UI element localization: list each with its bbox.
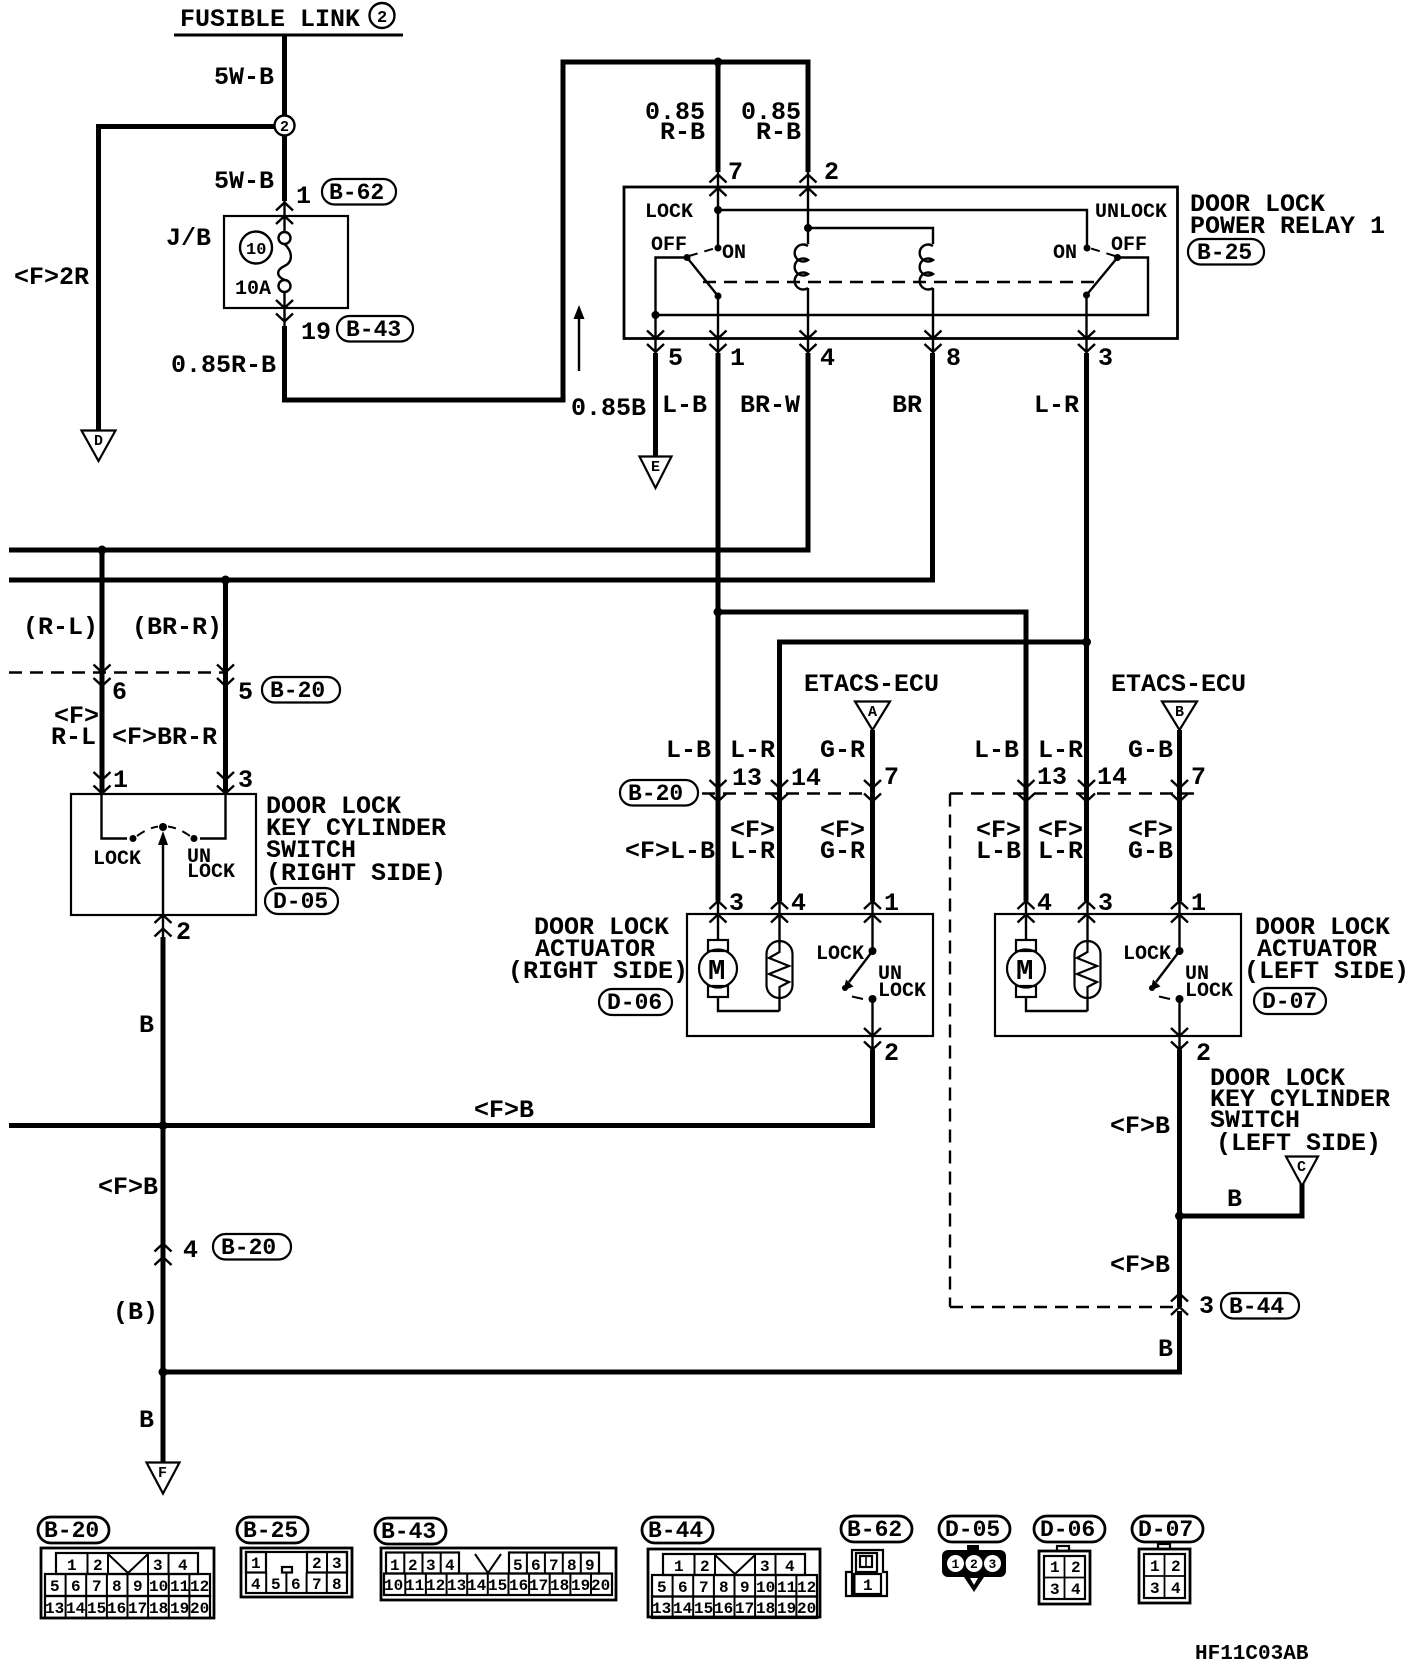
pin 3 chevron (1078, 331, 1095, 353)
connector B-25 drawing (241, 1548, 352, 1597)
title FUSIBLE LINK 2 (174, 3, 403, 35)
actuator LH name text (1244, 913, 1408, 986)
fuse element (two terminals + s-curve) (278, 200, 291, 328)
wire L-B from relay pin1 down (716, 353, 721, 901)
svg-text:L-B: L-B (662, 391, 707, 420)
svg-text:B: B (1158, 1335, 1173, 1364)
svg-text:3: 3 (153, 1557, 163, 1575)
svg-text:<F>BR-R: <F>BR-R (112, 723, 217, 752)
signal source triangle C (1286, 1157, 1318, 1187)
svg-text:G-R: G-R (820, 736, 865, 765)
svg-text:2: 2 (377, 9, 387, 28)
svg-text:A: A (868, 704, 877, 721)
svg-text:16: 16 (509, 1577, 528, 1595)
svg-text:2: 2 (93, 1557, 103, 1575)
svg-text:1: 1 (113, 766, 128, 795)
svg-text:D: D (94, 433, 103, 450)
left switch pivot dot (684, 254, 691, 261)
svg-text:J/B: J/B (166, 224, 211, 253)
svg-text:4: 4 (445, 1557, 455, 1575)
label (F) R-L (51, 702, 99, 752)
wire pin5 to ground E (653, 353, 658, 456)
wire relay pin8 BR down (930, 353, 935, 580)
connector D-07 drawing (1139, 1544, 1190, 1603)
junction dot L-B branch (714, 608, 723, 617)
svg-text:3: 3 (989, 1557, 997, 1572)
svg-text:1: 1 (674, 1558, 684, 1576)
wire L-R from relay pin3 down (1084, 353, 1089, 901)
svg-text:7: 7 (1191, 763, 1206, 792)
left arm lead to pin 1 (717, 296, 719, 355)
wire L-B branch to left actuator (718, 612, 1026, 901)
svg-text:(LEFT SIDE): (LEFT SIDE) (1244, 957, 1408, 986)
ground D (82, 431, 116, 462)
svg-text:1: 1 (1050, 1559, 1060, 1577)
pin 7 chevron (710, 175, 727, 197)
wire 0.85R-B from J/B to relay feed (285, 62, 809, 400)
pin 13 chevron LH (1018, 780, 1035, 802)
pin 14 chevron (771, 780, 788, 802)
svg-text:10: 10 (384, 1577, 403, 1595)
connector tag B-43 (row) (375, 1518, 446, 1545)
svg-text:B: B (1175, 704, 1184, 721)
right switch dashed throw link (1091, 249, 1115, 257)
signal source triangle B (1162, 702, 1197, 731)
fuse 10 circled number (240, 232, 272, 264)
left switch common wire (656, 258, 688, 316)
connector B-20 dashed boundary (door RH) (702, 792, 875, 794)
connector tag B-20 (262, 677, 340, 704)
svg-text:B: B (139, 1011, 154, 1040)
svg-text:G-R: G-R (820, 837, 865, 866)
key switch lock lead (102, 794, 128, 839)
svg-text:2: 2 (408, 1557, 418, 1575)
wire relay pin4 BR-W down (806, 353, 811, 550)
svg-text:<F>B: <F>B (1110, 1112, 1170, 1141)
svg-text:15: 15 (488, 1577, 507, 1595)
svg-text:19: 19 (301, 318, 331, 347)
svg-text:1: 1 (390, 1557, 400, 1575)
svg-text:(B): (B) (113, 1298, 158, 1327)
svg-text:5: 5 (50, 1578, 60, 1596)
svg-text:5: 5 (657, 1579, 667, 1597)
coil 1 (relay lock coil) (795, 244, 808, 355)
svg-text:M: M (1016, 955, 1033, 988)
rail BR to left edge (9, 578, 935, 583)
left switch dashed throw link (689, 249, 714, 257)
junction dot at pin7 feed (714, 58, 723, 67)
label 0.85 R-B (pin 2 wire) (741, 98, 801, 147)
svg-text:L-R: L-R (1038, 837, 1083, 866)
svg-text:1: 1 (296, 182, 311, 211)
left switch arm (687, 258, 718, 297)
svg-text:14: 14 (1097, 763, 1127, 792)
svg-text:0.85B: 0.85B (571, 394, 646, 423)
pin 2 chevron (800, 175, 817, 197)
svg-text:4: 4 (183, 1236, 198, 1265)
mechanical link dashed (703, 281, 1096, 283)
svg-text:D-06: D-06 (1040, 1517, 1095, 1543)
connector tag D-07 (1254, 988, 1326, 1015)
svg-text:BR-W: BR-W (740, 391, 800, 420)
junction dot rail/R-L (98, 546, 107, 555)
svg-text:13: 13 (447, 1577, 466, 1595)
svg-text:UNLOCK: UNLOCK (1095, 201, 1167, 224)
connector tag B-25 (row) (237, 1517, 308, 1544)
wire G-R from A (870, 730, 875, 901)
svg-text:5: 5 (238, 678, 253, 707)
svg-text:3: 3 (1098, 344, 1113, 373)
wire from C to B wire (1180, 1184, 1303, 1216)
svg-text:14: 14 (467, 1577, 487, 1595)
connector tag D-05 (265, 888, 338, 915)
svg-text:4: 4 (1071, 1581, 1081, 1599)
svg-text:1: 1 (1150, 1558, 1160, 1576)
wire 5W-B from fusible link down (282, 35, 287, 116)
svg-text:8: 8 (567, 1557, 577, 1575)
coil 2 (relay unlock coil) (920, 244, 933, 355)
svg-text:B-20: B-20 (628, 781, 683, 807)
right switch arm (1087, 258, 1118, 296)
pin 4 chevron into actuator RH (771, 901, 788, 923)
svg-text:LOCK: LOCK (1123, 943, 1171, 966)
label UN LOCK (actuator LH) (1185, 963, 1233, 1003)
wire to ground F (161, 1374, 166, 1462)
svg-text:D-05: D-05 (945, 1517, 1000, 1543)
svg-text:R-L: R-L (51, 723, 96, 752)
svg-text:D-05: D-05 (273, 889, 328, 915)
connector tag D-06 (599, 989, 672, 1016)
pin 1 chevron into actuator RH (864, 901, 881, 923)
connector tag D-06 (row) (1034, 1516, 1105, 1543)
svg-text:L-R: L-R (730, 837, 775, 866)
svg-text:5W-B: 5W-B (214, 167, 274, 196)
svg-text:LOCK: LOCK (816, 943, 864, 966)
svg-text:7: 7 (92, 1578, 102, 1596)
svg-text:1: 1 (952, 1557, 960, 1572)
svg-text:3: 3 (760, 1558, 770, 1576)
svg-text:M: M (708, 955, 725, 988)
wire to right ON contact (718, 210, 1087, 248)
connector B-20 drawing (41, 1548, 214, 1618)
relay name DOOR LOCK POWER RELAY 1 (1190, 190, 1385, 241)
label UN LOCK (key switch) (187, 846, 235, 884)
svg-text:18: 18 (550, 1577, 569, 1595)
svg-text:2: 2 (824, 158, 839, 187)
svg-text:5: 5 (513, 1557, 523, 1575)
label (F) L-B (976, 816, 1021, 866)
pin 4 chevron into actuator LH (1018, 901, 1035, 923)
svg-text:LOCK: LOCK (878, 980, 926, 1003)
connector tag B-20 (row) (38, 1517, 109, 1544)
connector tag B-44 (1221, 1293, 1299, 1320)
svg-text:12: 12 (797, 1579, 816, 1597)
connector tag B-62 (row) (841, 1516, 912, 1543)
svg-text:2: 2 (1071, 1559, 1081, 1577)
svg-text:F: F (158, 1465, 167, 1482)
wire pin2 LH actuator down (1177, 1050, 1182, 1308)
pin 1 chevron (710, 331, 727, 353)
svg-text:C: C (1297, 1159, 1306, 1176)
svg-text:1: 1 (730, 344, 745, 373)
key switch unlock lead (200, 794, 226, 839)
svg-text:13: 13 (732, 764, 762, 793)
svg-text:B-44: B-44 (648, 1518, 703, 1544)
pin 2 chevron out of actuator LH (1171, 1028, 1188, 1050)
bottom rail B wire (163, 1311, 1180, 1372)
resistor pill (right actuator) (767, 900, 793, 1011)
svg-text:2: 2 (970, 1557, 978, 1572)
connector tag B-62 (322, 179, 396, 206)
svg-text:ON: ON (1053, 242, 1077, 265)
rail BR-W to left edge (9, 548, 811, 553)
svg-text:LOCK: LOCK (93, 848, 141, 871)
relay internal: pin7 lead to ON contact (717, 170, 719, 248)
svg-text:L-B: L-B (976, 837, 1021, 866)
pin 6 chevron (94, 665, 111, 687)
relay box (624, 187, 1178, 339)
wire B down from key switch (161, 937, 166, 1375)
label 0.85 R-B (pin 7 wire) (645, 98, 705, 147)
wire branch left from node 2 (99, 127, 275, 431)
right arm lead to pin 3 (1085, 295, 1087, 355)
svg-text:B-62: B-62 (329, 180, 384, 206)
svg-text:D-06: D-06 (607, 990, 662, 1016)
svg-text:G-B: G-B (1128, 837, 1173, 866)
svg-text:7: 7 (312, 1576, 322, 1594)
junction dot B rail (159, 1121, 168, 1130)
annotation arrow up (574, 305, 585, 371)
left switch ON contact dot (715, 245, 722, 252)
svg-text:L-R: L-R (1034, 391, 1079, 420)
dashed arc to UNLOCK (168, 827, 190, 837)
svg-text:8: 8 (719, 1579, 729, 1597)
svg-text:<F>B: <F>B (98, 1173, 158, 1202)
svg-text:R-B: R-B (756, 118, 801, 147)
unlock contact dot (191, 835, 198, 842)
connector B-44 dashed boundary (door LH) (950, 792, 1197, 794)
svg-text:5: 5 (271, 1576, 281, 1594)
svg-text:12: 12 (190, 1578, 209, 1596)
svg-text:20: 20 (190, 1600, 209, 1618)
wire (R-L) branch down (100, 550, 105, 794)
svg-text:11: 11 (405, 1577, 424, 1595)
svg-text:G-B: G-B (1128, 736, 1173, 765)
svg-text:<F>2R: <F>2R (14, 263, 89, 292)
svg-text:6: 6 (291, 1576, 301, 1594)
svg-text:17: 17 (128, 1600, 147, 1618)
connector tag B-43 (337, 316, 413, 343)
connector B-62 drawing (846, 1550, 887, 1596)
label (F) G-B (1128, 816, 1173, 866)
wire L-R branch to right actuator (780, 642, 1087, 901)
svg-text:13: 13 (45, 1600, 64, 1618)
svg-text:13: 13 (1037, 763, 1067, 792)
left switch arm end dot (715, 293, 722, 300)
pin 14 chevron LH (1078, 780, 1095, 802)
pin 5 lead (654, 315, 656, 355)
svg-text:2: 2 (312, 1555, 322, 1573)
svg-text:10A: 10A (235, 278, 271, 301)
pin 4 chevron B-20 (155, 1244, 172, 1266)
svg-text:11: 11 (777, 1579, 796, 1597)
svg-text:2: 2 (176, 918, 191, 947)
pin 5 chevron (647, 331, 664, 353)
junction node 2 (circle) (275, 116, 295, 137)
svg-text:6: 6 (531, 1557, 541, 1575)
ground F (147, 1463, 180, 1494)
svg-text:B: B (139, 1406, 154, 1435)
svg-text:2: 2 (1171, 1558, 1181, 1576)
svg-text:(RIGHT SIDE): (RIGHT SIDE) (266, 859, 446, 888)
svg-text:OFF: OFF (651, 234, 687, 257)
svg-text:1: 1 (863, 1577, 873, 1595)
pin 3 chevron into key switch (217, 772, 234, 794)
svg-text:(RIGHT SIDE): (RIGHT SIDE) (508, 957, 688, 986)
svg-text:B-25: B-25 (243, 1518, 298, 1544)
svg-text:5W-B: 5W-B (214, 63, 274, 92)
pin 1 chevron into actuator LH (1171, 901, 1188, 923)
svg-text:(BR-R): (BR-R) (132, 613, 222, 642)
connector tag B-25 (1188, 239, 1264, 266)
pin 13 chevron (710, 780, 727, 802)
svg-text:19: 19 (571, 1577, 590, 1595)
connector B-44 drawing (648, 1549, 820, 1618)
svg-text:ETACS-ECU: ETACS-ECU (804, 670, 939, 699)
svg-text:(LEFT SIDE): (LEFT SIDE) (1216, 1129, 1381, 1158)
junction dot C branch (1175, 1212, 1184, 1221)
svg-text:8: 8 (332, 1576, 342, 1594)
actuator LH switch (1149, 900, 1184, 1051)
svg-text:L-B: L-B (666, 736, 711, 765)
svg-text:ETACS-ECU: ETACS-ECU (1111, 670, 1246, 699)
motor M (left actuator) (1007, 900, 1088, 1011)
key switch moving arm (arrow up) (158, 831, 168, 938)
svg-text:2: 2 (700, 1558, 710, 1576)
svg-text:2: 2 (884, 1039, 899, 1068)
svg-text:L-R: L-R (730, 736, 775, 765)
svg-text:8: 8 (112, 1578, 122, 1596)
connector D-06 drawing (1039, 1546, 1090, 1604)
svg-text:19: 19 (170, 1600, 189, 1618)
key switch pivot dot (159, 823, 167, 831)
svg-text:LOCK: LOCK (645, 201, 693, 224)
svg-text:B-44: B-44 (1229, 1294, 1284, 1320)
junction dot bottom rail (159, 1368, 168, 1377)
svg-text:B-25: B-25 (1197, 240, 1252, 266)
connector B-43 drawing (381, 1548, 616, 1600)
svg-text:13: 13 (652, 1600, 671, 1618)
svg-text:4: 4 (1171, 1580, 1181, 1598)
coil 1 feed (807, 170, 809, 244)
door lock actuator (left) box (995, 914, 1241, 1036)
connector B-20 dashed boundary (9, 671, 226, 673)
pin 2 chevron out of actuator RH (864, 1028, 881, 1050)
junction dot L-R branch (1082, 638, 1091, 647)
connector B-44 dashed bottom edge (950, 1306, 1173, 1308)
wire pin2 RH actuator down (9, 1050, 873, 1126)
ground E (640, 457, 672, 489)
pin 19 chevron out of J/B (276, 300, 293, 322)
wire (BR-R) branch down (223, 580, 228, 794)
svg-text:14: 14 (791, 764, 821, 793)
connector B-44 dashed left edge (949, 794, 951, 1308)
right switch pivot dot (1114, 254, 1121, 261)
svg-text:19: 19 (777, 1600, 796, 1618)
svg-text:2: 2 (1196, 1039, 1211, 1068)
labels L-B L-R G-B (left actuator wires) (974, 736, 1173, 765)
connector tag B-20 (620, 780, 698, 807)
signal source triangle A (855, 702, 890, 731)
wire G-B from B (1177, 730, 1182, 901)
pin 5 chevron (217, 665, 234, 687)
svg-text:E: E (651, 459, 660, 476)
label (F) G-R (820, 816, 865, 866)
svg-text:14: 14 (66, 1600, 86, 1618)
key cylinder switch LH name text (1210, 1064, 1390, 1158)
svg-text:OFF: OFF (1111, 234, 1147, 257)
pin 3 chevron into actuator LH (1078, 901, 1095, 923)
svg-text:B-20: B-20 (44, 1518, 99, 1544)
connector tag B-20 (213, 1234, 291, 1261)
svg-text:18: 18 (756, 1600, 775, 1618)
svg-text:9: 9 (133, 1578, 143, 1596)
svg-text:1: 1 (251, 1555, 261, 1573)
svg-text:5: 5 (668, 344, 683, 373)
pin 3 chevron B-44 (1171, 1294, 1188, 1316)
pin 1 chevron into key switch (94, 772, 111, 794)
coil top link wire (808, 228, 933, 244)
svg-text:17: 17 (735, 1600, 754, 1618)
svg-text:7: 7 (728, 158, 743, 187)
svg-text:<F>L-B: <F>L-B (625, 837, 715, 866)
pin 3 chevron into actuator RH (710, 901, 727, 923)
junction dot pin7/unlock feed (714, 206, 722, 214)
junction block J/B box (224, 216, 348, 308)
svg-text:4: 4 (785, 1558, 795, 1576)
svg-text:8: 8 (946, 344, 961, 373)
svg-text:3: 3 (1150, 1580, 1160, 1598)
svg-text:(R-L): (R-L) (23, 613, 98, 642)
motor M (right actuator) (699, 900, 780, 1011)
svg-text:LOCK: LOCK (1185, 980, 1233, 1003)
right switch ON contact dot (1084, 245, 1091, 252)
svg-text:1: 1 (67, 1557, 77, 1575)
right switch arm end dot (1083, 292, 1090, 299)
svg-text:B-62: B-62 (847, 1517, 902, 1543)
label (F) L-R (1038, 816, 1083, 866)
svg-text:<F>B: <F>B (474, 1096, 534, 1125)
common rail junction dot (652, 311, 660, 319)
svg-text:16: 16 (107, 1600, 126, 1618)
connector tag D-05 (row) (939, 1516, 1010, 1543)
svg-text:ON: ON (722, 242, 746, 265)
svg-text:10: 10 (246, 241, 266, 260)
connector tag D-07 (row) (1132, 1516, 1203, 1543)
svg-text:BR: BR (892, 391, 922, 420)
svg-text:6: 6 (678, 1579, 688, 1597)
svg-text:0.85R-B: 0.85R-B (171, 351, 276, 380)
svg-text:D-07: D-07 (1262, 989, 1317, 1015)
svg-text:9: 9 (740, 1579, 750, 1597)
svg-text:9: 9 (585, 1557, 595, 1575)
svg-text:FUSIBLE LINK: FUSIBLE LINK (180, 5, 360, 34)
svg-text:L-B: L-B (974, 736, 1019, 765)
svg-text:B-20: B-20 (270, 678, 325, 704)
svg-text:4: 4 (251, 1576, 261, 1594)
svg-text:6: 6 (71, 1578, 81, 1596)
dashed arc to LOCK (137, 827, 158, 837)
